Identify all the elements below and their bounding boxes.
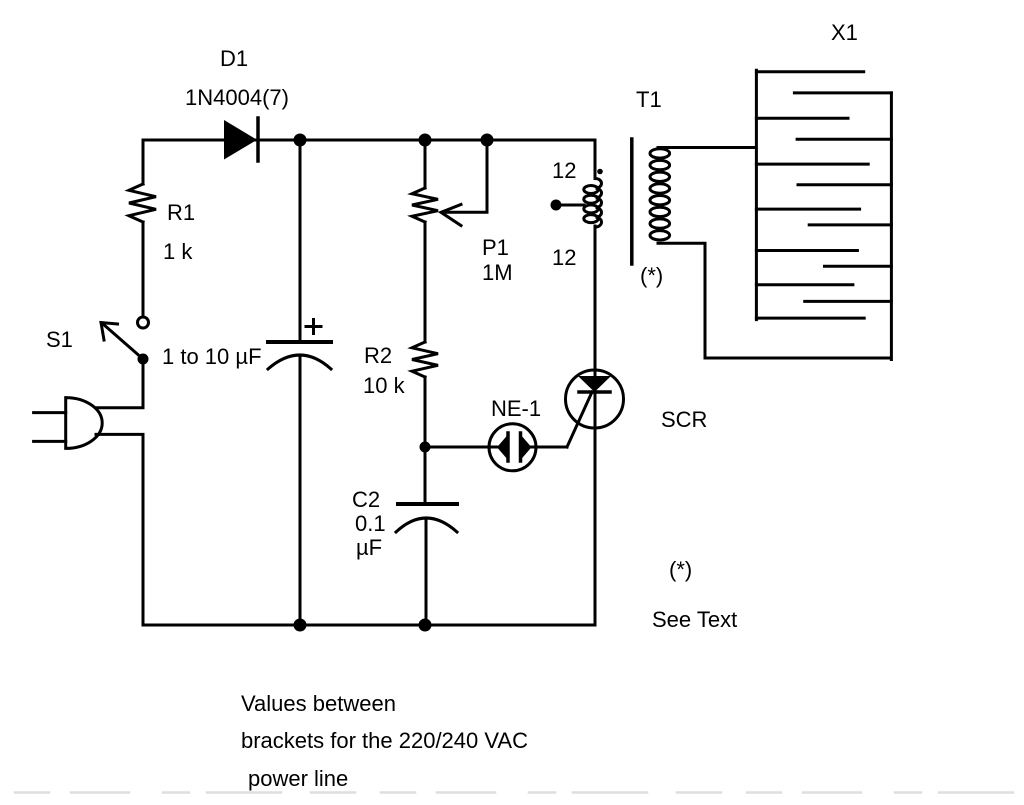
X1 finger L2 bbox=[756, 117, 848, 120]
X1 finger L5 bbox=[756, 249, 857, 252]
resistor R1 bbox=[129, 184, 156, 222]
svg-text:R1: R1 bbox=[167, 200, 195, 225]
svg-text:12: 12 bbox=[552, 245, 576, 270]
svg-text:S1: S1 bbox=[46, 327, 73, 352]
X1 finger R4 bbox=[809, 223, 891, 226]
transformer T1 primary winding bbox=[584, 179, 602, 228]
mains plug bbox=[34, 398, 103, 449]
X1 finger L1 bbox=[756, 70, 863, 73]
wire C1 column lower bbox=[299, 356, 302, 625]
X1 finger R1 bbox=[794, 91, 891, 94]
wire C2 bottom lead bbox=[425, 518, 428, 625]
capacitor C1 electrolytic bbox=[268, 320, 331, 370]
wire node to NE-1 bbox=[425, 446, 497, 449]
transformer core bbox=[630, 139, 634, 264]
node junction D1/C1 bbox=[294, 134, 307, 147]
wire tap bbox=[556, 204, 584, 207]
wire top rail bbox=[143, 139, 595, 142]
wire R2 to C2 bbox=[424, 377, 427, 504]
wire secondary top to X1 bbox=[658, 146, 756, 149]
node junction C1 bottom bbox=[294, 619, 307, 632]
node junction C2 bottom bbox=[419, 619, 432, 632]
switch S1 bbox=[101, 317, 149, 365]
X1 finger L3 bbox=[756, 163, 868, 166]
svg-text:X1: X1 bbox=[831, 20, 858, 45]
wire C1 column upper bbox=[299, 140, 302, 341]
X1 finger R3 bbox=[798, 183, 891, 186]
svg-text:10 k: 10 k bbox=[363, 373, 406, 398]
thyristor SCR bbox=[566, 370, 624, 428]
svg-text:(*): (*) bbox=[669, 557, 692, 582]
wire gate diagonal bbox=[567, 392, 592, 447]
svg-text:NE-1: NE-1 bbox=[491, 396, 541, 421]
wire bottom rail bbox=[143, 624, 595, 627]
wire T1 primary top lead bbox=[594, 140, 597, 179]
transformer T1 secondary winding bbox=[650, 149, 670, 240]
node junction R2/NE-1 bbox=[420, 442, 431, 453]
svg-text:D1: D1 bbox=[220, 46, 248, 71]
electric fence X1 left rail bbox=[755, 70, 758, 319]
node junction wiper top bbox=[481, 134, 494, 147]
neon lamp NE-1 bbox=[489, 424, 536, 471]
wire left column upper bbox=[142, 140, 145, 184]
svg-text:brackets for the 220/240 VAC: brackets for the 220/240 VAC bbox=[241, 728, 528, 753]
wire plug bottom to rail bbox=[96, 434, 143, 625]
capacitor C2 bbox=[396, 504, 457, 532]
svg-text:SCR: SCR bbox=[661, 407, 707, 432]
svg-text:µF: µF bbox=[356, 535, 382, 560]
svg-text:1N4004(7): 1N4004(7) bbox=[185, 85, 289, 110]
wire P1 to R2 bbox=[424, 222, 427, 342]
X1 finger L6 bbox=[756, 283, 853, 286]
svg-text:See Text: See Text bbox=[652, 607, 737, 632]
X1 finger L4 bbox=[756, 208, 859, 211]
svg-text:(*): (*) bbox=[640, 263, 663, 288]
svg-text:1M: 1M bbox=[482, 260, 513, 285]
svg-text:R2: R2 bbox=[364, 343, 392, 368]
wire secondary bottom to X1 bbox=[658, 243, 891, 358]
P1 wiper arm bbox=[441, 140, 487, 226]
svg-text:P1: P1 bbox=[482, 235, 509, 260]
wire switch to plug top bbox=[96, 359, 143, 408]
svg-text:T1: T1 bbox=[636, 87, 662, 112]
svg-text:1 to 10 µF: 1 to 10 µF bbox=[162, 344, 262, 369]
svg-text:power line: power line bbox=[248, 766, 348, 791]
X1 finger R2 bbox=[797, 138, 891, 141]
node junction P1 top bbox=[419, 134, 432, 147]
potentiometer P1 bbox=[412, 188, 438, 222]
X1 finger R6 bbox=[805, 300, 892, 303]
phasing dot bbox=[597, 169, 603, 175]
svg-text:C2: C2 bbox=[352, 487, 380, 512]
svg-text:12: 12 bbox=[552, 158, 576, 183]
diode D1 bbox=[224, 118, 258, 161]
X1 finger L7 bbox=[756, 317, 864, 320]
X1 finger R5 bbox=[825, 265, 892, 268]
svg-text:Values between: Values between bbox=[241, 691, 396, 716]
tap dot bbox=[551, 200, 562, 211]
resistor R2 bbox=[412, 342, 438, 377]
wire primary to SCR and cathode down bbox=[594, 226, 597, 625]
wire NE-1 to gate bbox=[532, 446, 568, 449]
svg-text:0.1: 0.1 bbox=[355, 511, 386, 536]
X1 right rail bbox=[890, 93, 893, 360]
wire R1 to switch bbox=[142, 222, 145, 317]
wire P1 top lead bbox=[424, 140, 427, 188]
svg-text:1 k: 1 k bbox=[163, 239, 193, 264]
